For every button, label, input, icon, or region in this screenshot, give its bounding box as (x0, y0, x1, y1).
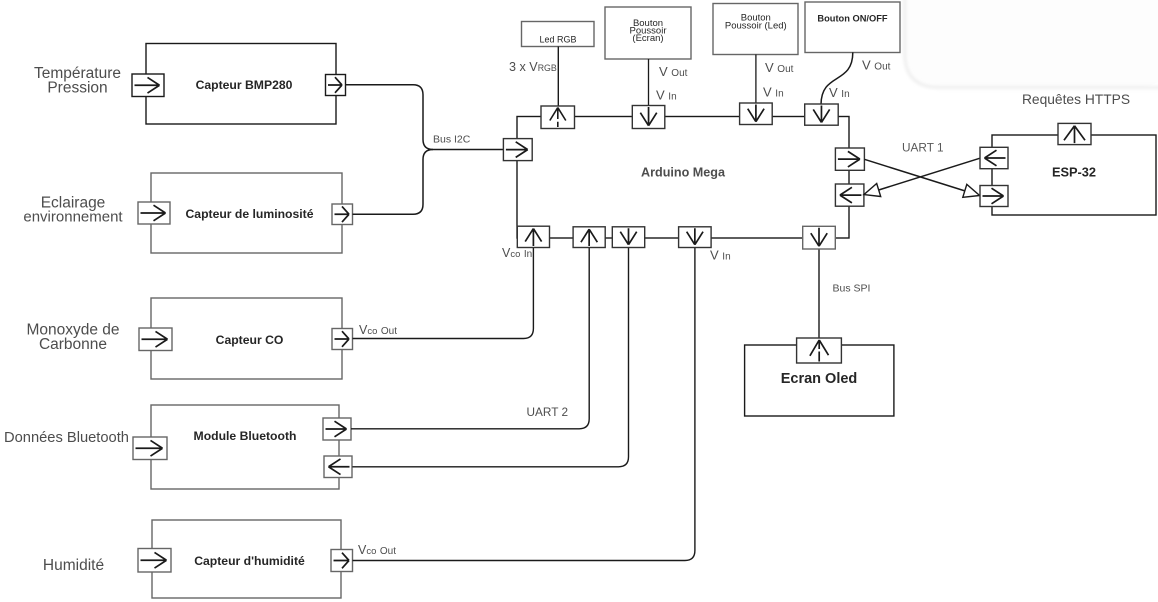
svg-text:Capteur BMP280: Capteur BMP280 (196, 78, 293, 92)
svg-text:UART 2: UART 2 (527, 405, 569, 419)
svg-text:Capteur CO: Capteur CO (216, 333, 284, 347)
port V In (Led) on Arduino top (740, 103, 773, 125)
input port of Capteur CO (left) (139, 328, 172, 351)
block Capteur de luminosite (151, 173, 342, 253)
output port of Capteur CO (right) (332, 329, 353, 350)
faded overlay artifact top-right (905, 0, 1158, 88)
wire BMP280 out to I2C junction (346, 85, 434, 150)
svg-text:(Ecran): (Ecran) (632, 33, 663, 44)
svg-text:Humidité: Humidité (43, 557, 104, 574)
input port of Module Bluetooth (left) (133, 437, 167, 460)
wire luminosite out to I2C junction (353, 150, 434, 215)
svg-text:3 x VRGB: 3 x VRGB (509, 60, 557, 74)
port V In humidite on Arduino bottom (down arrow) (679, 227, 712, 248)
port Bus SPI on Arduino bottom (down arrow) (803, 226, 836, 249)
svg-text:environnement: environnement (23, 209, 123, 226)
svg-text:Bus SPI: Bus SPI (833, 283, 871, 295)
block ESP-32 (992, 135, 1156, 215)
port Vco In on Arduino bottom (up arrow) (517, 226, 549, 247)
box Led RGB (522, 22, 595, 47)
port ESP-32 left in (left arrow) (980, 147, 1008, 168)
svg-text:Ecran Oled: Ecran Oled (781, 371, 858, 387)
port 3xVrgb on Arduino top (up arrow to Led RGB) (541, 106, 575, 129)
port Bus I2C on Arduino left edge (503, 139, 532, 161)
svg-text:Capteur de luminosité: Capteur de luminosité (186, 207, 314, 221)
output port of Module Bluetooth (right upper) (323, 418, 351, 440)
wire Bus SPI Arduino to Ecran Oled (818, 248, 820, 339)
wire Led RGB to port (557, 47, 559, 107)
port V In (Ecran) on Arduino top (632, 106, 665, 129)
svg-text:Arduino Mega: Arduino Mega (641, 166, 726, 180)
arrowhead at ESP-32 in (963, 184, 980, 197)
block Arduino Mega (517, 117, 849, 239)
block Ecran Oled (745, 345, 894, 416)
port UART1 out on Arduino right edge (835, 148, 864, 170)
box Bouton Poussoir (Ecran) (605, 7, 691, 59)
port Bus SPI on Ecran Oled top (up arrow) (797, 338, 842, 363)
svg-text:Poussoir (Led): Poussoir (Led) (725, 20, 787, 31)
input port of luminosite (left) (138, 202, 170, 224)
svg-text:Requêtes HTTPS: Requêtes HTTPS (1022, 92, 1130, 107)
block Capteur BMP280 (146, 44, 336, 125)
svg-text:Capteur d'humidité: Capteur d'humidité (194, 554, 305, 568)
port UART1 in on Arduino right edge (835, 184, 864, 206)
port Requetes HTTPS on ESP-32 top (up arrow) (1058, 123, 1091, 144)
block Capteur d'humidite (152, 520, 341, 598)
wire Module Bluetooth out (UART 2) to Arduino bottom port (351, 248, 589, 429)
port UART2 out on Arduino bottom (down arrow) (612, 227, 644, 248)
wire Arduino bottom port to humidite Vco Out (353, 248, 695, 561)
wire Arduino UART1 out to ESP-32 (diagonal) (864, 159, 964, 191)
svg-text:Pression: Pression (47, 80, 107, 97)
block Module Bluetooth (151, 405, 339, 489)
svg-text:Carbonne: Carbonne (39, 336, 107, 353)
input port of humidite (left) (138, 549, 171, 573)
svg-text:ESP-32: ESP-32 (1052, 165, 1096, 180)
svg-text:Led RGB: Led RGB (539, 35, 576, 45)
output port of BMP280 (right) (326, 75, 346, 96)
port UART2 in on Arduino bottom (up arrow) (573, 227, 605, 248)
port V In (ON/OFF) on Arduino top (805, 104, 839, 125)
box Bouton ON/OFF (805, 2, 900, 53)
input port of BMP280 (left) (132, 74, 164, 97)
svg-text:Bouton ON/OFF: Bouton ON/OFF (817, 14, 888, 24)
output port of humidite (right) (331, 550, 353, 572)
output port of luminosite (right) (332, 204, 353, 225)
svg-text:Vco In: Vco In (502, 246, 532, 260)
arrowhead at Arduino UART1 in (864, 184, 881, 197)
wire Bouton Led to port (755, 55, 757, 105)
wire Arduino bottom port to Module Bluetooth in (352, 248, 628, 467)
svg-text:UART 1: UART 1 (902, 141, 944, 155)
port ESP-32 left out (right arrow) (980, 186, 1008, 207)
wire I2C junction to Arduino left port (433, 149, 503, 151)
svg-text:Données Bluetooth: Données Bluetooth (4, 430, 129, 446)
svg-text:Vco Out: Vco Out (358, 543, 396, 557)
wire ESP-32 out to Arduino UART1 in (diagonal) (879, 158, 980, 190)
wire Capteur CO Vco Out to Arduino Vco In port (353, 248, 534, 339)
svg-text:Bus I2C: Bus I2C (433, 134, 471, 146)
input port of Module Bluetooth (right lower) (324, 456, 352, 478)
wire Bouton ON/OFF S-curve to port (821, 52, 853, 104)
block Capteur CO (151, 298, 342, 379)
wire Bouton Ecran to port (648, 59, 650, 107)
box Bouton Poussoir (Led) (713, 4, 798, 55)
svg-text:Vco Out: Vco Out (359, 323, 397, 337)
svg-text:Module Bluetooth: Module Bluetooth (194, 429, 297, 443)
